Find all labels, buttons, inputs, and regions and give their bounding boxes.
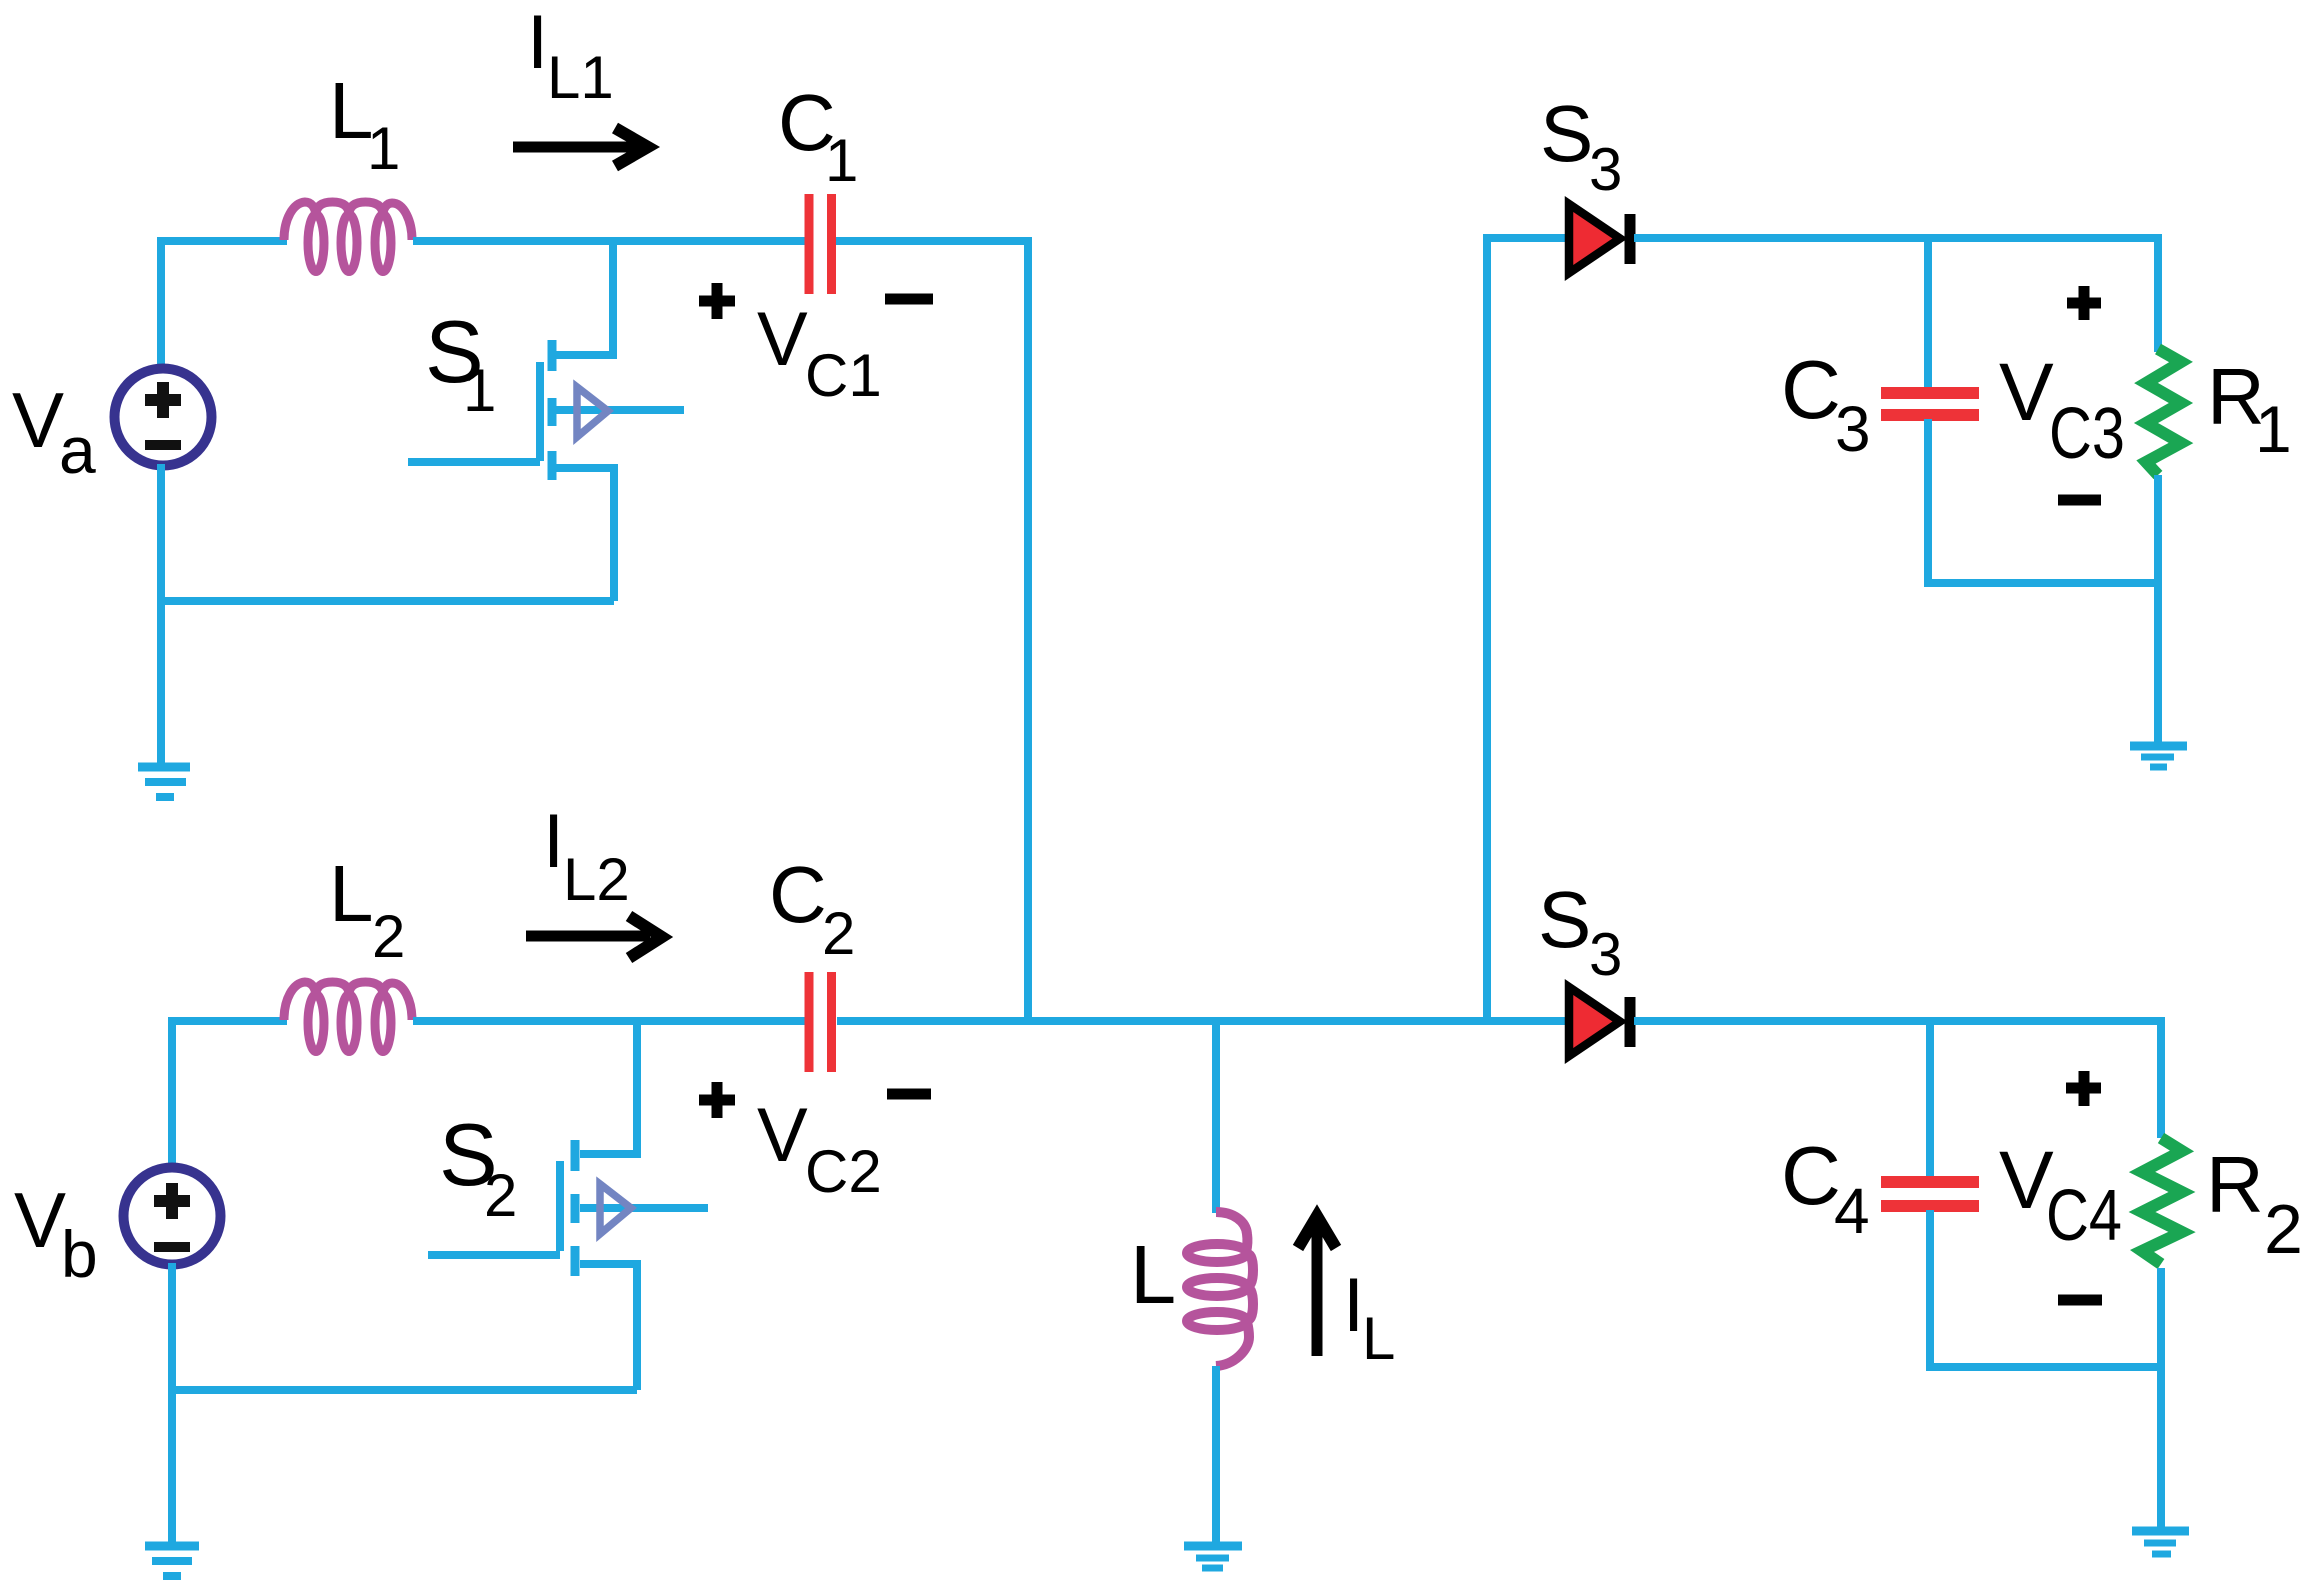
svg-text:C4: C4 [2046, 1176, 2122, 1256]
wire output1 bottom rail [1928, 579, 2158, 587]
diode S3 bottom [1569, 987, 1630, 1056]
label Vb [14, 1176, 98, 1291]
transistor S2 [560, 1140, 631, 1276]
svg-text:V: V [12, 376, 64, 464]
svg-text:1: 1 [463, 357, 496, 424]
capacitor C3 [1881, 393, 1979, 415]
svg-text:I: I [543, 799, 564, 884]
wire L bottom lead [1212, 1366, 1220, 1543]
svg-text:L1: L1 [547, 44, 614, 111]
label VC1 [757, 297, 882, 409]
svg-text:L: L [1130, 1228, 1176, 1321]
svg-text:1: 1 [825, 127, 858, 194]
label Va [12, 376, 96, 487]
svg-text:L2: L2 [563, 846, 630, 913]
svg-text:C3: C3 [2049, 394, 2125, 474]
label S3 top [1540, 89, 1622, 203]
capacitor C4 [1881, 1182, 1979, 1206]
svg-text:L: L [329, 849, 374, 938]
svg-text:V: V [757, 1093, 808, 1178]
svg-text:3: 3 [1589, 136, 1622, 203]
minus output1 [2058, 495, 2101, 506]
wire main bus [837, 1017, 1570, 1025]
label IL1 [527, 0, 614, 111]
svg-text:1: 1 [2255, 392, 2292, 466]
label R2 [2206, 1140, 2303, 1268]
wire S2 middle lead [580, 1204, 708, 1212]
ground A [138, 767, 190, 797]
minus output2 [2058, 1295, 2102, 1306]
wire C4 bottom lead [1926, 1210, 1934, 1371]
label IL [1343, 1263, 1395, 1372]
minus VC1 [885, 294, 933, 305]
ground E [1184, 1546, 1242, 1568]
svg-text:2: 2 [372, 903, 405, 970]
wire C1 right to bus drop [836, 241, 1028, 1021]
label VC4 [1999, 1135, 2122, 1256]
wire C4 top lead [1926, 1021, 1934, 1178]
plus VC2 [699, 1082, 735, 1118]
arrow IL vertical [1298, 1216, 1336, 1356]
label C1 [778, 78, 858, 194]
svg-text:3: 3 [1835, 393, 1871, 465]
wire Vb bottom lead [168, 1263, 176, 1390]
label VC2 [757, 1093, 882, 1205]
svg-text:2: 2 [484, 1162, 517, 1229]
wire output2 bottom rail [1930, 1363, 2161, 1371]
svg-text:C: C [1781, 343, 1841, 436]
svg-text:1: 1 [367, 115, 400, 182]
ground C [2130, 746, 2187, 767]
wire L branch top [1212, 1021, 1220, 1213]
plus output1 [2067, 286, 2101, 320]
svg-text:V: V [14, 1176, 66, 1264]
wire S1 source riser [556, 468, 614, 601]
label L1 [329, 66, 400, 182]
arrow IL1 [513, 128, 648, 166]
wire Va bottom lead [157, 464, 165, 601]
label C2 [769, 850, 855, 967]
plus VC1 [699, 283, 735, 319]
svg-text:V: V [757, 297, 808, 382]
svg-text:4: 4 [1834, 1175, 1870, 1247]
svg-text:L: L [1362, 1305, 1395, 1372]
label IL2 [543, 799, 630, 913]
wire R2 bottom lead [2157, 1268, 2165, 1367]
wire after diode2 [1634, 1021, 2161, 1138]
label S2 [439, 1105, 517, 1229]
svg-text:C: C [769, 850, 827, 939]
wire bottom rail section 1 [161, 597, 614, 605]
ground D [2132, 1531, 2189, 1554]
wire L2 to C2 [413, 1017, 805, 1025]
label S3 bottom [1538, 875, 1622, 988]
svg-text:I: I [1343, 1263, 1364, 1348]
wire ground stem B [168, 1387, 176, 1543]
inductor L1 [284, 202, 412, 272]
capacitor C2 [809, 972, 832, 1072]
label S1 [425, 302, 496, 424]
svg-text:S: S [1540, 89, 1593, 178]
svg-text:2: 2 [822, 900, 855, 967]
wire ground stem A [157, 598, 165, 764]
wire bottom rail left of L2 [172, 1021, 287, 1169]
wire S2 drain drop [580, 1021, 637, 1154]
minus VC2 [887, 1089, 931, 1100]
diode S3 top [1569, 204, 1630, 273]
voltage source Vb [124, 1168, 221, 1265]
label VC3 [1999, 347, 2125, 474]
svg-text:b: b [61, 1217, 98, 1291]
wire S1 gate lead [408, 458, 540, 466]
svg-text:S: S [1538, 875, 1591, 964]
resistor R2 [2142, 1138, 2182, 1264]
transistor S1 [540, 340, 608, 480]
capacitor C1 [809, 194, 832, 294]
label L2 [329, 849, 405, 970]
svg-text:C: C [1781, 1129, 1841, 1222]
wire node riser to S3 top anode [1487, 238, 1570, 1021]
resistor R1 [2146, 349, 2181, 475]
wire S2 gate lead [428, 1251, 560, 1259]
svg-text:C1: C1 [805, 342, 882, 409]
wire S2 source riser [580, 1264, 637, 1390]
wire L1 to C1 [413, 237, 805, 245]
wire ground stem C [2154, 580, 2162, 743]
wire S3a cathode to corner [1634, 238, 2158, 352]
wire R1 bottom lead [2154, 475, 2162, 583]
wire ground stem D [2157, 1364, 2165, 1528]
label C3 [1781, 343, 1871, 465]
voltage source Va [115, 369, 212, 466]
svg-text:V: V [1999, 347, 2054, 438]
wire top rail left of L1 [161, 241, 287, 370]
plus output2 [2066, 1071, 2101, 1106]
label C4 [1781, 1129, 1870, 1247]
svg-text:C2: C2 [805, 1138, 882, 1205]
inductor L [1187, 1212, 1253, 1366]
inductor L2 [284, 982, 412, 1052]
wire S1 middle lead [556, 406, 684, 414]
wire bottom rail section 2 [172, 1386, 637, 1394]
svg-text:2: 2 [2264, 1190, 2303, 1268]
label R1 [2207, 352, 2292, 466]
svg-text:R: R [2206, 1140, 2264, 1229]
wire C3 top lead [1924, 238, 1932, 389]
svg-text:3: 3 [1589, 921, 1622, 988]
ground B [145, 1546, 199, 1576]
wire S1 drain drop [556, 241, 613, 355]
wire C3 bottom lead [1924, 419, 1932, 587]
arrow IL2 [526, 916, 662, 958]
svg-text:I: I [527, 0, 548, 85]
svg-text:a: a [59, 413, 96, 487]
